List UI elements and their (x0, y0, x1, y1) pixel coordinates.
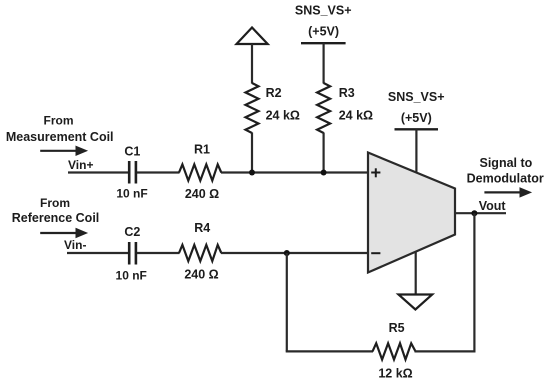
svg-text:SNS_VS+: SNS_VS+ (295, 4, 352, 18)
label Signal to Demodulator (467, 156, 544, 186)
svg-text:10 nF: 10 nF (116, 187, 147, 201)
arrow signal to demodulator (484, 188, 530, 197)
resistor R2 (246, 83, 259, 133)
junction node B (R3 / Vin+ line) (321, 170, 327, 176)
svg-text:Signal to: Signal to (480, 156, 533, 170)
capacitor C2 (129, 242, 136, 265)
svg-text:12 kΩ: 12 kΩ (378, 367, 412, 381)
svg-text:C2: C2 (124, 225, 140, 239)
svg-text:From: From (40, 196, 70, 210)
svg-text:C1: C1 (124, 144, 140, 158)
svg-text:10 nF: 10 nF (116, 268, 147, 282)
resistor R5 (373, 343, 416, 359)
wire C2 to R4 (137, 252, 180, 254)
resistor R3 (317, 83, 330, 133)
svg-text:Vout: Vout (479, 199, 507, 213)
wire R3 to Vin+ line (323, 133, 325, 173)
svg-text:Measurement Coil: Measurement Coil (6, 130, 114, 144)
resistor R1 (179, 164, 221, 180)
+5V supply rail bar (op-amp) (395, 128, 439, 130)
wire R4 to op-amp - input (221, 252, 369, 254)
svg-text:24 kΩ: 24 kΩ (339, 109, 373, 123)
svg-text:R3: R3 (339, 86, 355, 100)
wire rail to op-amp V+ pin (415, 129, 417, 175)
wire feedback bottom left to R5 (286, 350, 373, 352)
svg-text:R2: R2 (266, 86, 282, 100)
wire op-amp V- pin to ground (415, 250, 417, 295)
svg-text:R5: R5 (389, 321, 405, 335)
arrow from reference coil (40, 229, 87, 238)
svg-text:Demodulator: Demodulator (467, 172, 544, 186)
svg-text:24 kΩ: 24 kΩ (266, 109, 300, 123)
op-amp U1 (368, 153, 455, 273)
wire R5 to feedback right leg (415, 350, 476, 352)
svg-text:240 Ω: 240 Ω (184, 267, 218, 281)
svg-text:Reference Coil: Reference Coil (12, 211, 100, 225)
svg-text:Vin-: Vin- (64, 238, 86, 252)
wire Vout node down (feedback right leg) (473, 213, 475, 351)
wire node C down (feedback left leg) (286, 253, 288, 351)
wire Vin+ lead to C1 (68, 171, 128, 173)
wire power arrow to R2 (251, 44, 253, 84)
svg-text:R1: R1 (194, 142, 210, 156)
svg-text:From: From (44, 114, 74, 128)
wire R1 to op-amp + input (221, 171, 369, 173)
+5V supply rail bar (left) (301, 42, 346, 44)
svg-text:240 Ω: 240 Ω (185, 187, 219, 201)
junction node C (feedback tap on Vin- line) (284, 250, 290, 256)
wire Vin- lead to C2 (67, 252, 128, 254)
label From Reference Coil (12, 196, 100, 225)
wire C1 to R1 (137, 171, 180, 173)
capacitor C1 (129, 161, 136, 184)
wire rail to R3 (323, 43, 325, 83)
svg-text:(+5V): (+5V) (401, 111, 432, 125)
ground (399, 295, 433, 310)
power arrow symbol above R2 (237, 28, 268, 45)
svg-text:Vin+: Vin+ (68, 158, 93, 172)
arrow from measurement coil (40, 146, 87, 155)
junction node Vout (471, 210, 477, 216)
wire R2 to Vin+ line (251, 133, 253, 173)
resistor R4 (179, 245, 221, 261)
svg-text:SNS_VS+: SNS_VS+ (388, 90, 445, 104)
wire op-amp output (455, 212, 506, 214)
svg-text:R4: R4 (194, 221, 210, 235)
junction node A (R2 / Vin+ line) (249, 170, 255, 176)
svg-text:(+5V): (+5V) (308, 25, 339, 39)
label From Measurement Coil (6, 114, 114, 145)
